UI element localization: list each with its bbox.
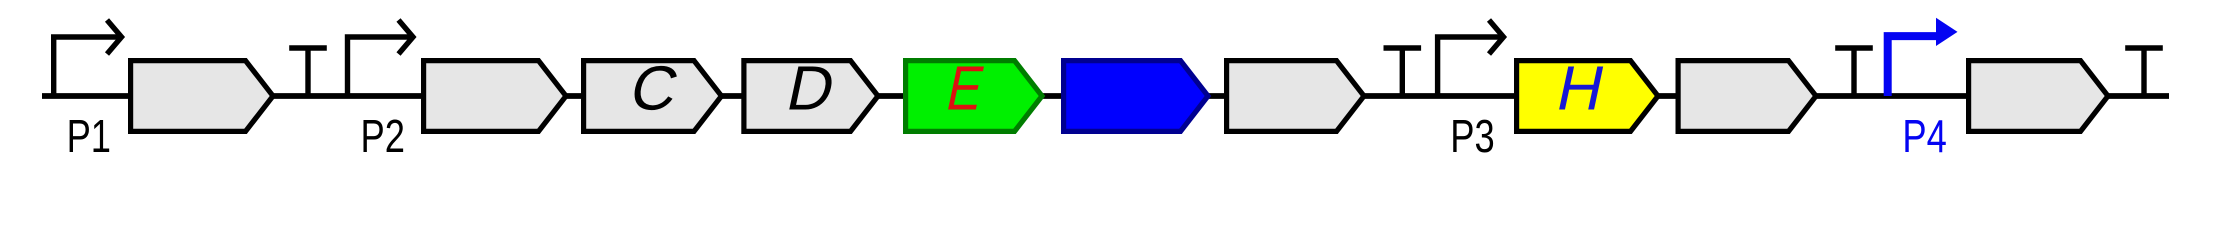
terminator T1 bbox=[289, 48, 327, 96]
CDS gene J (grey) bbox=[1969, 61, 2108, 132]
label H bbox=[1551, 54, 1611, 123]
terminator T2 bbox=[1384, 48, 1422, 96]
CDS gene D (grey) bbox=[744, 61, 878, 132]
label C bbox=[624, 54, 684, 123]
CDS gene H (yellow) bbox=[1517, 61, 1658, 132]
CDS gene A (grey) bbox=[131, 61, 273, 132]
svg-text:P4: P4 bbox=[1902, 110, 1946, 156]
CDS gene F (blue) bbox=[1064, 61, 1208, 132]
promoter P2 bbox=[348, 20, 414, 96]
CDS gene B (grey) bbox=[424, 61, 566, 132]
label D bbox=[781, 54, 841, 123]
svg-text:P2: P2 bbox=[360, 110, 404, 156]
CDS gene C (grey) bbox=[584, 61, 722, 132]
backbone wire bbox=[42, 93, 2169, 99]
terminator T3 bbox=[1835, 48, 1873, 96]
svg-text:P1: P1 bbox=[67, 110, 111, 156]
label P2 bbox=[360, 110, 404, 162]
promoter P4 (blue) bbox=[1888, 18, 1958, 96]
label P1 bbox=[67, 110, 111, 162]
label P3 bbox=[1450, 110, 1494, 162]
CDS gene G (grey) bbox=[1227, 61, 1364, 132]
svg-text:P3: P3 bbox=[1450, 110, 1494, 156]
label P4 bbox=[1902, 110, 1946, 162]
CDS gene E (green) bbox=[906, 61, 1042, 132]
promoter P1 bbox=[54, 20, 122, 96]
label E bbox=[941, 54, 990, 123]
promoter P3 bbox=[1438, 20, 1504, 96]
terminator T4 bbox=[2125, 48, 2163, 96]
CDS gene I (grey) bbox=[1678, 61, 1816, 132]
